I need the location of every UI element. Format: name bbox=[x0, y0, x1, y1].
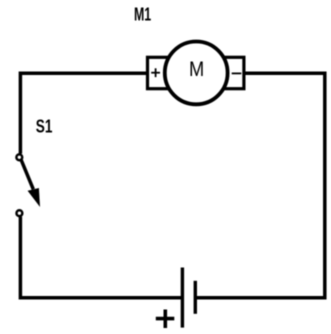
svg-text:M1: M1 bbox=[134, 4, 151, 25]
svg-text:S1: S1 bbox=[36, 115, 53, 136]
svg-text:M: M bbox=[189, 58, 204, 81]
